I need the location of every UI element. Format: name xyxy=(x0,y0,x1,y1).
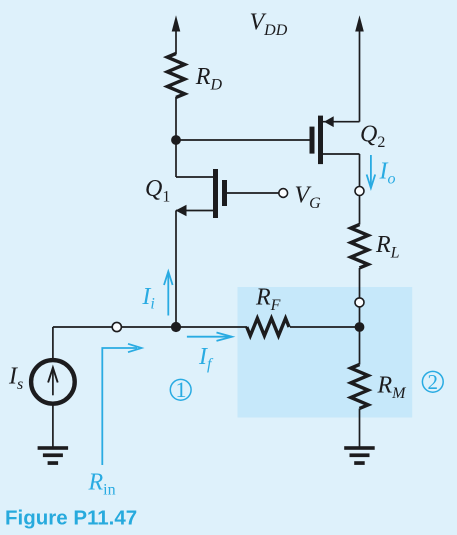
svg-text:2: 2 xyxy=(428,370,439,394)
svg-text:Figure P11.47: Figure P11.47 xyxy=(5,507,137,530)
svg-text:1: 1 xyxy=(176,377,187,402)
